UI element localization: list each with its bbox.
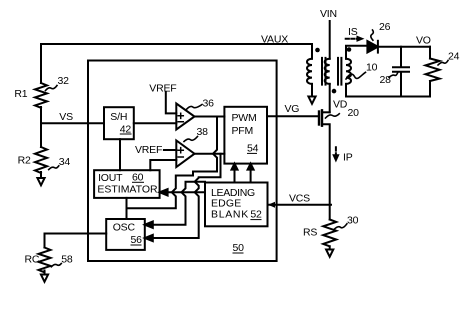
svg-text:VG: VG <box>285 103 300 115</box>
svg-text:20: 20 <box>348 107 360 119</box>
svg-text:VS: VS <box>59 111 73 123</box>
svg-text:VAUX: VAUX <box>261 34 288 46</box>
svg-text:R2: R2 <box>18 155 31 167</box>
svg-text:34: 34 <box>59 156 71 168</box>
svg-text:VIN: VIN <box>320 8 337 20</box>
svg-text:PWM: PWM <box>232 112 257 124</box>
svg-text:38: 38 <box>197 126 209 138</box>
svg-text:10: 10 <box>366 62 378 74</box>
svg-text:52: 52 <box>250 209 262 221</box>
svg-text:IS: IS <box>348 26 358 38</box>
svg-text:26: 26 <box>379 21 391 33</box>
svg-text:30: 30 <box>347 215 359 227</box>
svg-text:VREF: VREF <box>135 144 162 156</box>
svg-text:R1: R1 <box>14 88 27 100</box>
svg-text:PFM: PFM <box>232 125 254 137</box>
svg-text:RS: RS <box>303 227 317 239</box>
svg-text:56: 56 <box>131 234 143 246</box>
svg-text:50: 50 <box>233 242 245 254</box>
svg-text:S/H: S/H <box>110 111 127 123</box>
svg-text:32: 32 <box>58 75 70 87</box>
svg-text:VD: VD <box>333 99 348 111</box>
svg-text:24: 24 <box>448 51 460 63</box>
svg-text:RC: RC <box>25 254 40 266</box>
svg-text:OSC: OSC <box>113 221 136 233</box>
svg-text:28: 28 <box>380 74 392 86</box>
svg-text:54: 54 <box>247 143 259 155</box>
svg-text:VREF: VREF <box>149 82 176 94</box>
svg-text:ESTIMATOR: ESTIMATOR <box>97 184 158 196</box>
svg-text:60: 60 <box>132 171 144 183</box>
svg-text:IOUT: IOUT <box>98 172 123 184</box>
svg-text:VO: VO <box>416 35 431 47</box>
svg-text:VCS: VCS <box>289 193 310 205</box>
svg-text:36: 36 <box>203 98 215 110</box>
svg-text:58: 58 <box>61 253 73 265</box>
svg-text:BLANK: BLANK <box>211 209 248 221</box>
svg-text:IP: IP <box>343 151 353 163</box>
